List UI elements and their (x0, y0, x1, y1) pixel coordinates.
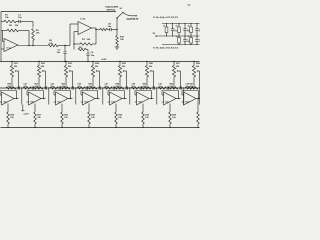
resistor R14 (178, 24, 180, 27)
wire feedback loop (182, 94, 184, 96)
wiper VR3 (69, 70, 72, 72)
wire node A (32, 22, 34, 28)
svg-text:10u: 10u (91, 55, 95, 57)
wire feedback loop (135, 94, 137, 96)
wire left input rail (0, 12, 2, 62)
op-amp IC1b (78, 22, 92, 35)
resistor R24b (131, 87, 139, 89)
resistor R22 (60, 87, 70, 89)
node stage 4 (102, 87, 103, 88)
svg-text:10u: 10u (174, 31, 177, 33)
node stage 6 (156, 87, 157, 88)
resistor R17 (190, 36, 192, 37)
capacitor C22 (44, 86, 46, 89)
resistor R26b (185, 87, 193, 89)
resistor R22b (77, 87, 85, 89)
wire V+ rail (162, 23, 200, 25)
resistor R32 (61, 112, 64, 124)
resistor R21b (50, 87, 58, 89)
switch S1 (116, 18, 118, 30)
wire to 4.5V rail (21, 88, 23, 105)
svg-text:1k: 1k (176, 25, 178, 27)
node stage 3 (75, 87, 76, 88)
resistor R10 (116, 30, 118, 36)
capacitor C8 (108, 29, 110, 31)
resistor R36 (169, 112, 172, 124)
wiper VR2 (42, 70, 45, 72)
svg-text:+4.5V: +4.5V (101, 58, 107, 61)
resistor R37 (197, 112, 200, 124)
wire filter bus (0, 87, 200, 89)
wire to 4.5V rail (156, 88, 158, 105)
wire feedback (19, 30, 30, 32)
svg-text:W: W (188, 3, 191, 7)
wire output (68, 98, 73, 100)
svg-text:IC3c: IC3c (165, 102, 169, 104)
wire feedback loop (27, 94, 29, 96)
wire IC1b output (92, 27, 97, 29)
capacitor C6 (87, 50, 89, 54)
wire noninverting input (135, 101, 137, 103)
op-amp IC2c (56, 92, 69, 105)
potentiometer VR3 (65, 61, 66, 62)
wire top bypass bus (1, 11, 115, 13)
wire to output arrow (123, 13, 136, 16)
capacitor C30 (152, 86, 154, 89)
svg-text:1k: 1k (188, 36, 190, 38)
potentiometer VR8 (193, 61, 194, 62)
wire noninverting input (81, 101, 83, 103)
resistor R31 (34, 112, 37, 124)
capacitor C28 (112, 86, 114, 89)
capacitor C28 (125, 86, 127, 89)
potentiometer VR1 (11, 61, 12, 62)
op-amp IC2b (29, 92, 42, 105)
svg-text:1k: 1k (188, 25, 190, 27)
svg-text:10u: 10u (108, 26, 112, 28)
node output junction (116, 29, 117, 30)
svg-text:10u: 10u (199, 31, 200, 33)
wiper VR1 (15, 70, 18, 72)
capacitor C5 (64, 46, 66, 52)
potentiometer VR4 (92, 61, 93, 62)
wire IC1a output (18, 45, 49, 47)
resistor R16 (178, 36, 180, 37)
wire IC1b inverting input (74, 31, 78, 33)
potentiometer VR2 (38, 61, 39, 62)
svg-text:IC1b: IC1b (81, 19, 86, 21)
svg-text:EQUALISER: EQUALISER (106, 6, 119, 9)
svg-text:To Pin 4 (8) of IC1,IC2,IC3: To Pin 4 (8) of IC1,IC2,IC3 (153, 47, 179, 50)
wire noninverting input (27, 101, 29, 103)
capacitor C13 (196, 36, 198, 39)
wire mixing bus (1, 61, 200, 63)
wire noninverting input IC1a (1, 48, 4, 50)
resistor R5 (32, 29, 35, 41)
resistor R34 (115, 112, 118, 124)
wire feedback loop (108, 94, 110, 96)
capacitor C1 (16, 21, 19, 23)
node stage 7 (183, 87, 184, 88)
resistor R7 (80, 43, 92, 46)
wire to 4.5V rail (75, 88, 77, 105)
wire feedback loop (162, 94, 164, 96)
resistor R23 (87, 87, 97, 89)
resistor R24 (114, 87, 124, 89)
wire to 4.5V rail (48, 88, 50, 105)
op-amp IC1a (4, 39, 18, 52)
wire to 4.5V rail (129, 88, 131, 105)
svg-text:10n: 10n (18, 17, 22, 19)
capacitor C32 (179, 86, 181, 89)
op-amp IC2a (2, 92, 15, 105)
resistor R13 (166, 24, 168, 27)
wiper VR8 (197, 70, 199, 72)
capacitor C24 (58, 86, 60, 89)
wire output (95, 98, 100, 100)
resistor R9 (100, 28, 108, 30)
resistor R8 (73, 44, 75, 50)
capacitor C32 (166, 86, 168, 89)
resistor R35 (142, 112, 145, 124)
svg-text:1k: 1k (163, 25, 165, 27)
wire battery rail (156, 35, 200, 37)
wire output (41, 98, 46, 100)
wire output (149, 98, 154, 100)
capacitor C20 (17, 86, 19, 89)
resistor R1 (1, 21, 4, 23)
wire bottom rail (1, 127, 200, 129)
wire output (122, 98, 127, 100)
capacitor C30 (139, 86, 141, 89)
node stage 2 (48, 87, 49, 88)
svg-text:IC2c: IC2c (57, 102, 61, 104)
capacitor C26 (85, 86, 87, 89)
svg-text:To Pin 8 (4) of IC1,IC2,IC3: To Pin 8 (4) of IC1,IC2,IC3 (153, 16, 179, 19)
wire feedback loop (54, 94, 56, 96)
wire noninverting input (182, 101, 184, 103)
label +4.5V rail stage 1 (22, 105, 24, 111)
node stage 5 (129, 87, 130, 88)
wire noninverting input (54, 101, 56, 103)
wire to 4.5V rail (183, 88, 185, 105)
resistor R15 (190, 24, 192, 27)
wiper VR4 (96, 70, 99, 72)
wiper VR7 (177, 70, 180, 72)
resistor R25 (141, 87, 151, 89)
resistor R27 (188, 87, 198, 89)
op-amp IC3c (164, 92, 177, 105)
wire output (14, 98, 19, 100)
op-amp IC3b (137, 92, 150, 105)
wire feedback loop (0, 94, 2, 96)
wire noninverting input (162, 101, 164, 103)
node stage 1 (21, 87, 22, 88)
capacitor C12 (184, 36, 186, 39)
wire noninverting input (108, 101, 110, 103)
potentiometer VR5 (119, 61, 120, 62)
resistor R2 (1, 30, 7, 32)
wire to IC1b input (69, 24, 71, 46)
potentiometer VR6 (146, 61, 147, 62)
wire output (196, 98, 201, 100)
capacitor C9 (172, 24, 174, 29)
op-amp IC3a (110, 92, 123, 105)
svg-text:+4.5V: +4.5V (23, 113, 29, 116)
wiper VR6 (150, 70, 153, 72)
resistor R25b (158, 87, 166, 89)
svg-text:1k: 1k (176, 36, 178, 38)
capacitor C10 (184, 24, 186, 29)
capacitor C26 (98, 86, 100, 89)
resistor R30 (7, 112, 10, 124)
wire to 4.5V rail (199, 88, 201, 105)
wire to 4.5V rail (102, 88, 104, 105)
svg-text:OUTPUT: OUTPUT (127, 17, 139, 21)
resistor R33 (88, 112, 91, 124)
wire feedback loop (81, 94, 83, 96)
svg-text:10u: 10u (57, 52, 61, 54)
wire noninverting input (0, 101, 1, 103)
resistor R20 (6, 87, 16, 89)
capacitor C11 (196, 24, 198, 29)
svg-text:10u: 10u (199, 41, 200, 43)
resistor R21 (33, 87, 43, 89)
wire 0V rail (162, 44, 200, 46)
wire output (176, 98, 181, 100)
potentiometer VR7 (173, 61, 174, 62)
ground (115, 46, 119, 48)
wire feedback IC1b (95, 30, 97, 45)
capacitor C24 (71, 86, 73, 89)
resistor R26 (168, 87, 178, 89)
op-amp IC3d (184, 92, 197, 105)
wire (58, 45, 70, 47)
resistor R20b (23, 87, 31, 89)
resistor R6 (48, 44, 58, 47)
op-amp IC2d (83, 92, 96, 105)
wiper VR5 (123, 70, 126, 72)
svg-text:SWITCH: SWITCH (107, 9, 116, 11)
resistor R23b (104, 87, 112, 89)
capacitor C22 (31, 86, 33, 89)
